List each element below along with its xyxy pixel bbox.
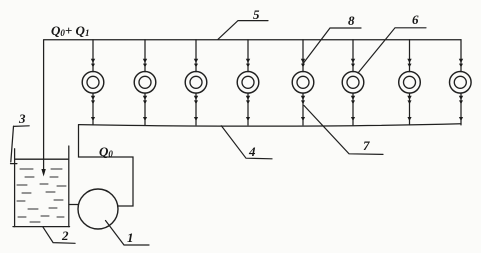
- svg-text:2: 2: [61, 228, 69, 243]
- wire return line to tank (Q0+Q1): [43, 40, 45, 171]
- svg-text:8: 8: [348, 13, 355, 28]
- branch riser 3: [194, 40, 198, 125]
- branch riser 8 (right end drop): [459, 40, 463, 125]
- arrow into tank: [41, 169, 45, 177]
- pump 1: [78, 189, 118, 229]
- branch riser 2: [143, 40, 147, 125]
- svg-text:Q0+ Q1: Q0+ Q1: [51, 23, 89, 38]
- leader for label 2: [43, 227, 75, 244]
- svg-text:6: 6: [412, 12, 419, 27]
- svg-text:Q0: Q0: [99, 144, 113, 159]
- nozzle 6: [342, 72, 364, 94]
- liquid hatching dashes: [17, 169, 66, 222]
- branch riser 5: [301, 40, 305, 125]
- branch riser 7: [407, 40, 411, 125]
- nozzle 8: [450, 72, 472, 94]
- svg-text:3: 3: [18, 111, 26, 126]
- wire pump discharge piping: [79, 125, 134, 206]
- inlet pipe 3: [11, 126, 17, 163]
- leader for label 6: [358, 28, 426, 73]
- nozzle 5: [292, 72, 314, 94]
- svg-text:7: 7: [363, 138, 370, 153]
- nozzle 2: [134, 72, 156, 94]
- leader for label 1: [106, 221, 150, 246]
- tank 2 bottom: [13, 226, 70, 228]
- leader for label 3: [14, 125, 30, 128]
- liquid surface: [15, 158, 68, 160]
- wire tank to pump suction stub: [69, 204, 79, 206]
- tank 2 left wall: [14, 149, 16, 227]
- leader for label 5: [218, 21, 268, 40]
- leader for label 8: [304, 28, 362, 63]
- svg-text:5: 5: [253, 7, 260, 22]
- nozzle 7: [399, 72, 421, 94]
- branch riser 6: [351, 40, 355, 125]
- tank 2 right wall: [68, 146, 70, 227]
- svg-text:1: 1: [127, 230, 134, 245]
- nozzle 4: [237, 72, 259, 94]
- wire bottom manifold pipe 4: [79, 124, 462, 126]
- branch riser 1: [91, 40, 95, 125]
- leader for label 4: [221, 126, 272, 159]
- wire top manifold pipe 5: [44, 39, 461, 41]
- nozzle 1: [82, 72, 104, 94]
- svg-text:4: 4: [248, 144, 256, 159]
- branch riser 4: [246, 40, 250, 125]
- leader for label 7: [304, 106, 383, 155]
- nozzle 3: [185, 72, 207, 94]
